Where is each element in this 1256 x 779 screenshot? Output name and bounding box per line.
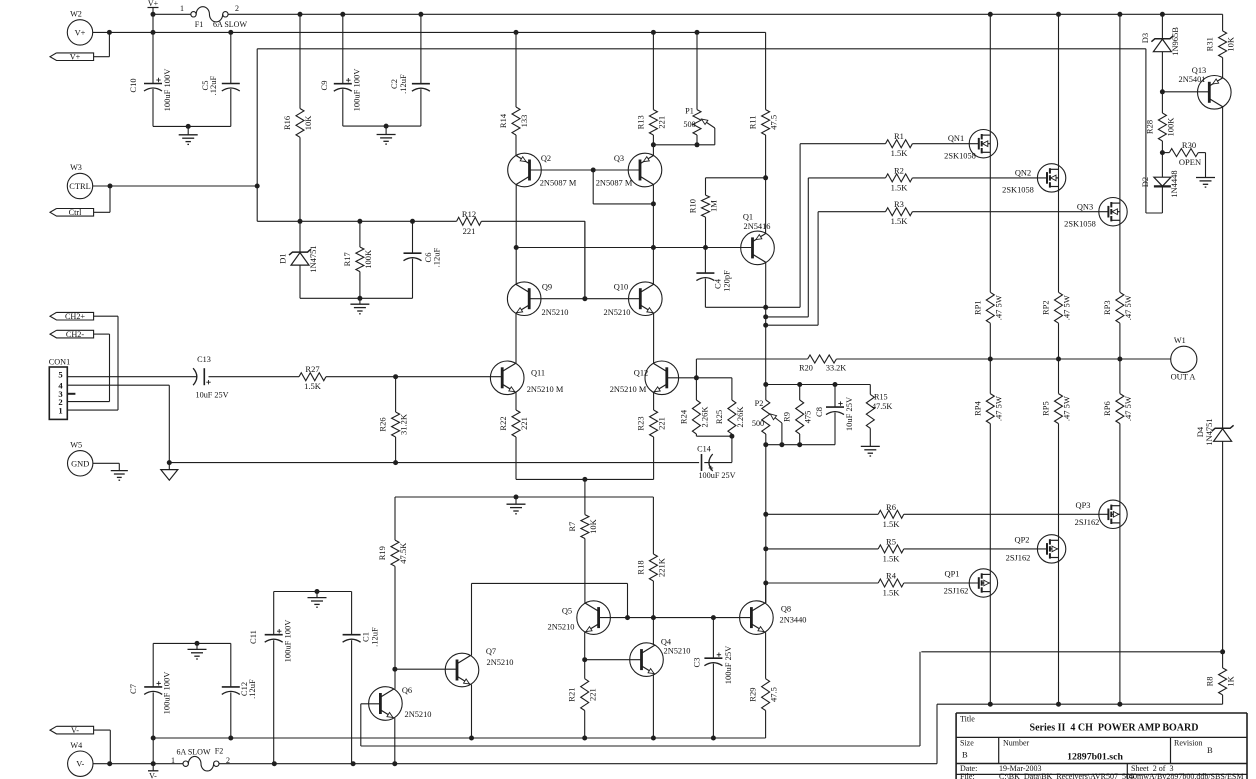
svg-text:B: B xyxy=(1207,745,1213,755)
svg-text:12897b01.sch: 12897b01.sch xyxy=(1067,752,1123,763)
svg-text:QN2: QN2 xyxy=(1015,169,1031,178)
svg-text:475: 475 xyxy=(803,411,813,424)
svg-text:Size: Size xyxy=(960,739,974,748)
svg-text:R29: R29 xyxy=(748,688,758,702)
svg-text:.12uF: .12uF xyxy=(370,627,380,647)
svg-text:2N5210: 2N5210 xyxy=(487,658,514,667)
svg-text:R30: R30 xyxy=(1182,140,1196,150)
svg-text:221: 221 xyxy=(657,417,667,430)
svg-text:2N5210: 2N5210 xyxy=(542,308,569,317)
svg-text:100uF 25V: 100uF 25V xyxy=(723,645,733,684)
svg-text:C7: C7 xyxy=(128,684,138,694)
svg-text:1: 1 xyxy=(58,405,62,415)
svg-text:1: 1 xyxy=(171,756,175,765)
svg-text:221K: 221K xyxy=(656,557,666,577)
svg-text:RP3: RP3 xyxy=(1102,300,1112,315)
svg-text:.47 5W: .47 5W xyxy=(1062,295,1072,320)
svg-text:2N5210 M: 2N5210 M xyxy=(527,385,564,394)
svg-text:10K: 10K xyxy=(303,115,313,130)
svg-text:1.5K: 1.5K xyxy=(304,381,322,391)
svg-text:R13: R13 xyxy=(635,115,645,129)
svg-text:100K: 100K xyxy=(1165,117,1175,137)
svg-text:W2: W2 xyxy=(70,10,82,19)
svg-text:2SJ162: 2SJ162 xyxy=(1006,554,1031,563)
svg-text:.47 5W: .47 5W xyxy=(1123,295,1133,320)
svg-text:2N5087 M: 2N5087 M xyxy=(596,179,633,188)
svg-text:R15: R15 xyxy=(874,393,888,402)
svg-text:1N4751: 1N4751 xyxy=(1204,418,1214,445)
svg-text:R8: R8 xyxy=(1205,676,1215,686)
svg-text:R10: R10 xyxy=(688,199,698,213)
svg-text:Q6: Q6 xyxy=(402,686,412,695)
svg-text:500: 500 xyxy=(683,120,695,129)
svg-text:Series II 4 CH POWER AMP BOA: Series II 4 CH POWER AMP BOARD xyxy=(1030,723,1199,734)
svg-text:R31: R31 xyxy=(1205,37,1215,51)
svg-text:1.5K: 1.5K xyxy=(891,182,909,192)
svg-text:GND: GND xyxy=(71,459,89,468)
svg-text:W1: W1 xyxy=(1174,336,1186,345)
svg-text:V-: V- xyxy=(76,760,84,769)
svg-text:10uF 25V: 10uF 25V xyxy=(196,391,229,400)
svg-text:R2: R2 xyxy=(894,165,904,175)
svg-text:100uF 100V: 100uF 100V xyxy=(352,68,362,112)
svg-text:D2: D2 xyxy=(1140,177,1150,187)
svg-text:R12: R12 xyxy=(462,209,476,219)
svg-text:.47 5W: .47 5W xyxy=(1123,396,1133,421)
svg-text:R26: R26 xyxy=(378,417,388,431)
svg-text:1.5K: 1.5K xyxy=(883,588,901,598)
svg-text:RP1: RP1 xyxy=(972,300,982,315)
svg-text:500: 500 xyxy=(752,419,764,428)
svg-text:R17: R17 xyxy=(342,252,352,266)
svg-text:.47 5W: .47 5W xyxy=(1062,396,1072,421)
svg-text:R9: R9 xyxy=(782,412,792,422)
svg-text:47.5K: 47.5K xyxy=(872,402,892,411)
svg-text:D1: D1 xyxy=(278,253,288,263)
svg-text:1.5K: 1.5K xyxy=(891,216,909,226)
svg-text:1M: 1M xyxy=(709,200,719,212)
svg-text:221: 221 xyxy=(519,417,529,430)
svg-text:C10: C10 xyxy=(128,78,138,92)
svg-text:V-: V- xyxy=(149,772,157,779)
svg-text:100K: 100K xyxy=(363,249,373,269)
svg-text:Revision: Revision xyxy=(1174,739,1202,748)
svg-text:C13: C13 xyxy=(197,355,211,364)
svg-text:R16: R16 xyxy=(282,116,292,130)
svg-text:V+: V+ xyxy=(148,0,159,8)
svg-text:R3: R3 xyxy=(894,199,904,209)
svg-text:CTRL: CTRL xyxy=(69,182,90,191)
svg-text:2N3440: 2N3440 xyxy=(780,616,807,625)
svg-text:R6: R6 xyxy=(886,502,896,512)
svg-text:C:\BK_Data\BK_Receivers\AVR507: C:\BK_Data\BK_Receivers\AVR507_505 xyxy=(999,772,1134,779)
svg-text:5: 5 xyxy=(58,370,62,380)
svg-text:6A SLOW: 6A SLOW xyxy=(213,20,247,29)
svg-text:QP2: QP2 xyxy=(1015,536,1030,545)
svg-text:R14: R14 xyxy=(498,113,508,128)
svg-text:Q11: Q11 xyxy=(531,368,545,377)
svg-text:Q7: Q7 xyxy=(486,647,496,656)
svg-text:Q2: Q2 xyxy=(541,154,551,163)
svg-text:C8: C8 xyxy=(814,407,824,417)
svg-text:120pF: 120pF xyxy=(722,270,732,292)
svg-text:R23: R23 xyxy=(636,416,646,430)
svg-text:W4: W4 xyxy=(70,741,82,750)
svg-text:QN1: QN1 xyxy=(948,134,964,143)
svg-text:RP4: RP4 xyxy=(972,401,982,416)
svg-text:V+: V+ xyxy=(70,53,81,62)
svg-text:2.26K: 2.26K xyxy=(735,406,745,428)
svg-text:CON1: CON1 xyxy=(49,358,70,367)
svg-text:2N5210: 2N5210 xyxy=(405,710,432,719)
svg-text:R7: R7 xyxy=(567,522,577,532)
svg-text:W5: W5 xyxy=(70,440,82,449)
svg-text:.12uF: .12uF xyxy=(432,247,442,267)
svg-text:.47 5W: .47 5W xyxy=(993,295,1003,320)
svg-text:R4: R4 xyxy=(886,571,897,581)
svg-text:1.5K: 1.5K xyxy=(883,553,901,563)
svg-text:.47 5W: .47 5W xyxy=(993,396,1003,421)
svg-text:R24: R24 xyxy=(678,409,688,424)
svg-text:Q3: Q3 xyxy=(614,154,624,163)
svg-text:RP6: RP6 xyxy=(1102,401,1112,416)
svg-text:2N5087 M: 2N5087 M xyxy=(540,179,577,188)
svg-text:Q5: Q5 xyxy=(562,607,572,616)
svg-text:V-: V- xyxy=(71,726,79,735)
svg-text:221: 221 xyxy=(463,226,476,236)
svg-text:1N4448: 1N4448 xyxy=(1169,170,1179,197)
svg-text:R1: R1 xyxy=(894,131,904,141)
svg-text:QP1: QP1 xyxy=(945,570,960,579)
svg-text:Q9: Q9 xyxy=(542,283,552,292)
svg-text:100uF 25V: 100uF 25V xyxy=(698,471,735,480)
svg-text:R20: R20 xyxy=(799,364,813,373)
svg-text:2N5210 M: 2N5210 M xyxy=(610,385,647,394)
svg-text:Q13: Q13 xyxy=(1192,66,1206,75)
svg-text:RP2: RP2 xyxy=(1041,300,1051,315)
svg-text:Q8: Q8 xyxy=(781,605,791,614)
svg-text:Q10: Q10 xyxy=(614,283,628,292)
svg-text:2: 2 xyxy=(226,756,230,765)
svg-text:P2: P2 xyxy=(755,399,764,408)
svg-text:47.5: 47.5 xyxy=(769,115,779,130)
svg-text:CH2-: CH2- xyxy=(66,330,84,339)
svg-text:OUT A: OUT A xyxy=(1171,373,1196,382)
svg-text:R11: R11 xyxy=(748,115,758,129)
svg-text:2N5416: 2N5416 xyxy=(744,222,771,231)
svg-text:W3: W3 xyxy=(70,163,82,172)
svg-text:6A SLOW: 6A SLOW xyxy=(177,748,211,757)
svg-text:10uF 25V: 10uF 25V xyxy=(844,396,854,431)
svg-text:R25: R25 xyxy=(714,410,724,424)
svg-text:2SJ162: 2SJ162 xyxy=(1075,518,1100,527)
svg-text:1.5K: 1.5K xyxy=(891,148,909,158)
svg-text:P1: P1 xyxy=(685,107,694,116)
svg-text:CH2+: CH2+ xyxy=(65,312,85,321)
svg-text:Title: Title xyxy=(960,715,975,724)
svg-text:2SK1058: 2SK1058 xyxy=(1064,219,1096,228)
svg-text:Q12: Q12 xyxy=(634,368,648,377)
svg-text:221: 221 xyxy=(656,116,666,129)
svg-text:.12uF: .12uF xyxy=(398,74,408,94)
svg-text:.12uF: .12uF xyxy=(247,679,257,699)
svg-text:47.5K: 47.5K xyxy=(398,542,408,564)
svg-text:2N5401: 2N5401 xyxy=(1179,75,1206,84)
svg-text:C14: C14 xyxy=(697,445,711,454)
svg-text:Ctrl: Ctrl xyxy=(69,208,82,217)
svg-text:File:: File: xyxy=(960,772,975,779)
svg-text:10K: 10K xyxy=(1226,36,1236,52)
svg-text:1: 1 xyxy=(180,4,184,13)
svg-text:Q4: Q4 xyxy=(661,638,672,647)
svg-text:2SK1058: 2SK1058 xyxy=(944,152,976,161)
svg-text:2N5210: 2N5210 xyxy=(604,308,631,317)
svg-text:Number: Number xyxy=(1003,739,1030,748)
svg-text:47.5: 47.5 xyxy=(769,687,779,702)
svg-text:R21: R21 xyxy=(567,688,577,702)
svg-text:10K: 10K xyxy=(588,518,598,534)
svg-text:R27: R27 xyxy=(305,364,319,374)
svg-text:D3: D3 xyxy=(1140,33,1150,43)
svg-text:1K: 1K xyxy=(1226,675,1236,686)
svg-text:QN3: QN3 xyxy=(1077,202,1093,211)
svg-text:133: 133 xyxy=(519,115,529,128)
svg-text:100uF 100V: 100uF 100V xyxy=(162,671,172,715)
svg-text:F1: F1 xyxy=(195,20,203,29)
svg-text:1N4751: 1N4751 xyxy=(308,245,318,272)
svg-text:C11: C11 xyxy=(248,630,258,644)
svg-text:2SK1058: 2SK1058 xyxy=(1002,186,1034,195)
svg-text:C9: C9 xyxy=(319,81,329,91)
svg-text:.12uF: .12uF xyxy=(208,75,218,95)
svg-text:B: B xyxy=(962,750,968,760)
svg-text:OPEN: OPEN xyxy=(1179,157,1201,167)
svg-text:R19: R19 xyxy=(377,546,387,560)
svg-text:221: 221 xyxy=(588,688,598,701)
svg-text:R5: R5 xyxy=(886,536,896,546)
svg-text:V+: V+ xyxy=(75,28,86,37)
svg-text:QP3: QP3 xyxy=(1076,501,1091,510)
svg-text:1N965B: 1N965B xyxy=(1170,27,1180,56)
svg-text:2.26K: 2.26K xyxy=(699,406,709,428)
svg-text:33.2K: 33.2K xyxy=(826,364,846,373)
svg-text:2SJ162: 2SJ162 xyxy=(944,587,969,596)
svg-text:F2: F2 xyxy=(215,747,223,756)
svg-text:2: 2 xyxy=(235,4,239,13)
svg-text:1.5K: 1.5K xyxy=(883,519,901,529)
svg-text:C3: C3 xyxy=(692,658,702,668)
svg-text:31.2K: 31.2K xyxy=(399,413,409,435)
svg-text:R22: R22 xyxy=(498,416,508,430)
svg-text:R18: R18 xyxy=(635,560,645,574)
svg-text:Q1: Q1 xyxy=(743,213,753,222)
svg-text:RP5: RP5 xyxy=(1041,401,1051,416)
svg-text:2N5210: 2N5210 xyxy=(548,623,575,632)
svg-text:100uF 100V: 100uF 100V xyxy=(162,68,172,112)
svg-text:40mwA/Bv2897b00.ddb/SBS/ESM: 40mwA/Bv2897b00.ddb/SBS/ESM xyxy=(1129,772,1243,779)
svg-text:2N5210: 2N5210 xyxy=(664,647,691,656)
svg-text:100uF 100V: 100uF 100V xyxy=(283,619,293,663)
